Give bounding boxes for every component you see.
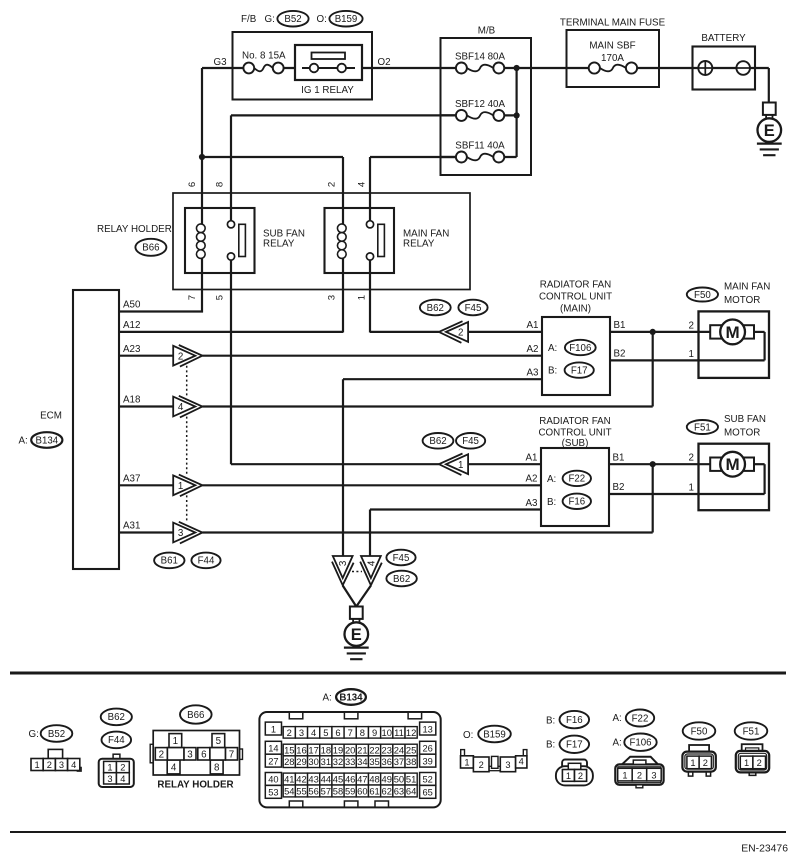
svg-text:O:: O: — [463, 730, 473, 741]
wire main A3 down to ground triangle 3 — [342, 379, 344, 556]
svg-text:3: 3 — [651, 770, 656, 780]
svg-text:14: 14 — [268, 744, 278, 754]
svg-text:B62: B62 — [393, 574, 410, 585]
battery negative terminal — [736, 61, 750, 75]
svg-text:F44: F44 — [108, 735, 125, 746]
svg-text:36: 36 — [382, 756, 392, 767]
svg-text:63: 63 — [394, 786, 404, 797]
svg-text:3: 3 — [299, 727, 304, 738]
wire ECM A31 to triangle — [119, 531, 173, 533]
svg-text:1: 1 — [458, 460, 463, 471]
svg-text:A37: A37 — [123, 473, 140, 484]
svg-text:1: 1 — [689, 483, 694, 494]
svg-text:F50: F50 — [691, 726, 708, 737]
wire triangle to sub control unit A2 — [202, 484, 541, 486]
connector view F50 — [682, 745, 715, 776]
connector pass-through triangle 4 (ground) — [360, 556, 382, 585]
connector oval F106 — [565, 340, 596, 355]
connector oval B52 (legend) — [41, 725, 73, 742]
svg-text:8: 8 — [360, 727, 365, 738]
svg-text:24: 24 — [394, 745, 404, 756]
junction SBF14 output — [514, 65, 520, 71]
wire motor sub stub — [754, 463, 765, 465]
connector oval B134 (schematic) — [31, 432, 62, 448]
svg-text:1: 1 — [35, 760, 40, 770]
svg-text:19: 19 — [333, 745, 343, 756]
svg-text:54: 54 — [284, 786, 294, 797]
svg-text:B1: B1 — [614, 320, 626, 331]
connector oval F22 (legend) — [626, 710, 654, 727]
connector oval B159 (top) — [329, 11, 362, 27]
svg-text:62: 62 — [382, 786, 392, 797]
svg-text:44: 44 — [321, 774, 331, 785]
connector oval F45 (sub chain) — [456, 433, 485, 449]
svg-text:21: 21 — [357, 745, 367, 756]
junction node coil feed — [199, 154, 205, 160]
svg-text:RADIATOR FAN: RADIATOR FAN — [539, 416, 611, 427]
wire SBF11 to bus — [499, 156, 517, 158]
fuse SBF14 80A — [456, 63, 504, 74]
svg-text:1: 1 — [357, 295, 368, 300]
svg-text:11: 11 — [394, 727, 404, 738]
svg-text:4: 4 — [311, 727, 316, 738]
svg-text:2: 2 — [578, 771, 583, 781]
svg-text:59: 59 — [345, 786, 355, 797]
wire into SBF12 — [441, 114, 461, 116]
svg-text:No. 8 15A: No. 8 15A — [242, 51, 286, 62]
svg-text:41: 41 — [284, 774, 294, 785]
svg-text:16: 16 — [296, 745, 306, 756]
svg-text:M/B: M/B — [478, 26, 496, 37]
svg-text:58: 58 — [333, 786, 343, 797]
svg-text:2: 2 — [689, 320, 694, 331]
connector oval F44 (legend) — [102, 732, 132, 749]
fuse box F/B outline — [233, 32, 373, 100]
radiator fan control unit MAIN — [542, 317, 610, 395]
svg-text:20: 20 — [345, 745, 355, 756]
svg-text:170A: 170A — [601, 53, 624, 64]
wire sub A3 left — [370, 508, 541, 510]
connector view F44/B62 — [99, 754, 134, 787]
svg-text:TERMINAL MAIN FUSE: TERMINAL MAIN FUSE — [560, 17, 666, 28]
svg-text:SBF12 40A: SBF12 40A — [455, 99, 506, 110]
svg-text:F17: F17 — [566, 740, 583, 751]
svg-text:B61: B61 — [161, 556, 178, 567]
svg-text:F45: F45 — [465, 303, 482, 314]
wire motor sub internal right — [763, 464, 765, 494]
connector oval F50 (legend) — [683, 722, 716, 739]
svg-text:E: E — [764, 122, 775, 140]
svg-text:61: 61 — [369, 786, 379, 797]
dotted link between ground triangles — [352, 571, 362, 573]
svg-text:46: 46 — [345, 774, 355, 785]
svg-text:4: 4 — [120, 774, 125, 784]
svg-text:CONTROL UNIT: CONTROL UNIT — [539, 291, 612, 302]
svg-text:G:: G: — [265, 14, 275, 25]
svg-text:A23: A23 — [123, 344, 141, 355]
svg-text:1: 1 — [622, 770, 627, 780]
battery positive terminal — [698, 61, 712, 75]
svg-text:47: 47 — [357, 774, 367, 785]
svg-text:9: 9 — [372, 727, 377, 738]
svg-text:F16: F16 — [568, 497, 585, 508]
svg-text:F106: F106 — [569, 343, 591, 354]
svg-text:B2: B2 — [613, 482, 625, 493]
svg-text:IG 1 RELAY: IG 1 RELAY — [301, 85, 354, 96]
connector oval B66 (schematic) — [135, 239, 166, 256]
connector oval B159 (legend) — [478, 726, 511, 743]
connector view F22/F106 — [615, 757, 663, 788]
svg-text:4: 4 — [171, 763, 177, 774]
connector oval F51 (schematic) — [687, 420, 718, 434]
svg-text:F51: F51 — [694, 422, 711, 433]
junction main B1 / A18 — [650, 329, 656, 335]
svg-text:33: 33 — [345, 756, 355, 767]
wire MAIN relay coil pin2/pin3 vertical — [342, 157, 344, 333]
wire triangle to main control unit A1 — [468, 331, 542, 333]
wire sub B2 to motor pin1 — [609, 493, 765, 495]
svg-text:56: 56 — [308, 786, 318, 797]
svg-text:B159: B159 — [335, 14, 358, 25]
svg-text:A2: A2 — [527, 344, 539, 355]
svg-text:40: 40 — [268, 775, 278, 785]
wire sub A3 down to ground triangle 4 — [369, 510, 371, 557]
svg-text:MAIN FAN: MAIN FAN — [724, 281, 770, 292]
connector view F16/F17 — [556, 760, 593, 786]
svg-text:13: 13 — [423, 724, 433, 734]
svg-text:F17: F17 — [571, 365, 588, 376]
wire SUB relay contact pin5 to SUB control unit A1 — [230, 260, 232, 464]
svg-text:B:: B: — [546, 716, 555, 727]
svg-text:2: 2 — [159, 749, 164, 760]
svg-text:5: 5 — [216, 736, 222, 747]
wire M/B internal bus vertical — [515, 68, 517, 157]
svg-text:1: 1 — [271, 724, 276, 734]
svg-text:MAIN SBF: MAIN SBF — [589, 40, 635, 51]
svg-text:10: 10 — [382, 727, 392, 738]
svg-text:F51: F51 — [743, 726, 760, 737]
svg-text:15: 15 — [284, 745, 294, 756]
svg-text:RADIATOR FAN: RADIATOR FAN — [540, 279, 612, 290]
svg-text:38: 38 — [406, 756, 416, 767]
svg-text:5: 5 — [323, 727, 328, 738]
svg-text:3: 3 — [327, 295, 338, 300]
wire triangle to main control unit A2 — [202, 355, 542, 357]
svg-text:2: 2 — [479, 760, 484, 770]
svg-text:5: 5 — [215, 295, 226, 300]
wire SBF12 to SUB relay contact pin8 — [230, 115, 232, 221]
svg-text:3: 3 — [59, 760, 64, 770]
wire main B1 to motor pin2 — [610, 331, 710, 333]
svg-text:F44: F44 — [198, 556, 215, 567]
svg-text:51: 51 — [406, 774, 416, 785]
svg-text:34: 34 — [357, 756, 367, 767]
svg-text:28: 28 — [284, 756, 294, 767]
svg-text:1: 1 — [173, 736, 178, 747]
svg-text:65: 65 — [423, 788, 433, 798]
wire triangle 3 to ground joint — [343, 586, 357, 607]
svg-text:A31: A31 — [123, 521, 140, 532]
connector pass-through triangle 1 (sub A1) — [439, 454, 468, 476]
svg-text:O:: O: — [317, 14, 327, 25]
svg-text:3: 3 — [505, 760, 510, 770]
svg-text:A:: A: — [323, 693, 332, 704]
wire sub B1 to motor pin2 — [609, 463, 710, 465]
fuse SBF11 40A — [456, 152, 504, 163]
svg-text:A:: A: — [613, 713, 622, 724]
svg-text:22: 22 — [369, 745, 379, 756]
dotted harness link between triangles — [186, 366, 188, 523]
connector oval B62 (sub chain) — [423, 433, 454, 449]
svg-text:30: 30 — [308, 756, 318, 767]
svg-text:4: 4 — [519, 757, 524, 767]
svg-text:52: 52 — [423, 775, 433, 785]
svg-text:F22: F22 — [568, 474, 585, 485]
ECM outline — [73, 290, 119, 569]
connector view F51 — [736, 744, 769, 775]
svg-text:F16: F16 — [566, 715, 583, 726]
relay K1 SUB FAN RELAY — [185, 208, 255, 273]
svg-text:SBF11 40A: SBF11 40A — [455, 141, 505, 152]
svg-text:45: 45 — [333, 774, 343, 785]
connector oval F17 (legend) — [560, 736, 590, 753]
svg-text:50: 50 — [394, 774, 404, 785]
connector oval B134 (legend) — [336, 689, 366, 705]
svg-text:12: 12 — [406, 727, 416, 738]
svg-text:BATTERY: BATTERY — [701, 33, 746, 44]
wire main A3 left — [343, 378, 542, 380]
svg-text:F22: F22 — [632, 713, 649, 724]
svg-text:7: 7 — [229, 749, 234, 760]
svg-text:2: 2 — [178, 351, 183, 362]
main fuse box M/B outline — [441, 38, 532, 175]
svg-text:RELAY HOLDER: RELAY HOLDER — [97, 224, 172, 235]
wire ECM A23 to triangle — [119, 355, 173, 357]
svg-text:(MAIN): (MAIN) — [560, 303, 591, 314]
wire SBF12 feed horizontal — [231, 114, 455, 116]
svg-text:26: 26 — [423, 744, 433, 754]
connector view B134 ECM — [259, 712, 440, 807]
wire MAIN SBF to battery — [631, 67, 769, 69]
svg-text:1: 1 — [744, 758, 749, 768]
svg-text:A3: A3 — [526, 498, 539, 509]
wire A18 triangle to junction — [202, 405, 652, 407]
svg-text:SUB FAN: SUB FAN — [724, 414, 766, 425]
connector pass-through triangle 2 (A23) — [173, 345, 202, 367]
radiator fan control unit SUB — [541, 448, 609, 526]
wire fuse No.8 through IG1 relay contacts to SBF14 — [277, 67, 461, 69]
separator line lower — [10, 831, 786, 833]
wire motor main internal right — [763, 332, 765, 361]
svg-text:1: 1 — [178, 481, 183, 492]
svg-text:B159: B159 — [483, 729, 506, 740]
svg-text:B:: B: — [547, 497, 556, 508]
svg-text:(SUB): (SUB) — [562, 438, 589, 449]
wire motor main stub — [754, 331, 765, 333]
svg-text:2: 2 — [757, 758, 762, 768]
svg-text:A18: A18 — [123, 395, 141, 406]
connector oval F45 (ground) — [386, 550, 415, 566]
IG 1 relay U1 — [295, 45, 362, 80]
svg-text:1: 1 — [690, 758, 695, 768]
connector pass-through triangle 1 (A37) — [173, 475, 202, 497]
svg-text:A:: A: — [548, 343, 557, 354]
svg-text:RELAY: RELAY — [403, 238, 435, 249]
wire ECM A12 to relay pin3 — [119, 331, 343, 333]
svg-text:3: 3 — [107, 774, 112, 784]
svg-text:1: 1 — [464, 758, 469, 768]
svg-text:F45: F45 — [393, 553, 410, 564]
svg-text:A2: A2 — [526, 474, 538, 485]
junction SBF12 output — [514, 112, 520, 118]
svg-text:53: 53 — [268, 788, 278, 798]
svg-text:F50: F50 — [694, 290, 711, 301]
svg-text:B134: B134 — [339, 692, 363, 703]
wire A18 up to main B1 — [652, 332, 654, 407]
svg-text:25: 25 — [406, 745, 416, 756]
svg-text:G:: G: — [29, 729, 39, 740]
svg-text:35: 35 — [369, 756, 379, 767]
svg-text:B66: B66 — [142, 243, 159, 254]
svg-text:ECM: ECM — [40, 411, 62, 422]
svg-text:2: 2 — [287, 727, 292, 738]
wire G3 to fuse No.8 — [202, 67, 250, 69]
svg-text:4: 4 — [178, 402, 184, 413]
main fan motor M1 — [699, 311, 770, 378]
svg-text:1: 1 — [566, 771, 571, 781]
wire MAIN relay contact pin1 down — [369, 260, 371, 333]
svg-text:B62: B62 — [427, 303, 444, 314]
fuse MAIN SBF 170A — [589, 62, 637, 73]
junction sub B1 / A31 — [650, 461, 656, 467]
connector oval B66 (legend) — [180, 705, 212, 723]
separator line upper — [10, 672, 786, 675]
wire battery negative to ground — [768, 68, 770, 103]
svg-text:M: M — [726, 323, 740, 342]
wire A31 up to sub B1 — [652, 464, 654, 532]
svg-text:31: 31 — [321, 756, 331, 767]
svg-text:B66: B66 — [187, 710, 204, 721]
wire SBF11 to MAIN relay contact pin4 — [369, 157, 371, 221]
svg-text:F/B: F/B — [241, 14, 257, 25]
svg-text:B62: B62 — [429, 436, 446, 447]
svg-text:8: 8 — [215, 182, 226, 187]
connector oval F22 — [563, 471, 591, 486]
svg-text:E: E — [351, 626, 362, 644]
connector pass-through triangle 3 (A31) — [173, 522, 202, 544]
svg-text:B52: B52 — [48, 729, 65, 740]
connector oval F50 (schematic) — [687, 288, 718, 302]
wire ECM A18 to triangle — [119, 405, 173, 407]
svg-text:MOTOR: MOTOR — [724, 295, 760, 306]
connector pass-through triangle 4 (A18) — [173, 396, 202, 418]
connector oval F16 (legend) — [560, 711, 590, 728]
svg-text:F45: F45 — [462, 436, 479, 447]
svg-text:7: 7 — [187, 295, 198, 300]
svg-text:49: 49 — [382, 774, 392, 785]
svg-text:6: 6 — [201, 749, 207, 760]
svg-text:4: 4 — [71, 760, 76, 770]
wire G3 vertical to SUB relay coil and A50 — [201, 68, 203, 313]
relay holder outline — [173, 193, 470, 290]
wire coil feed to MAIN relay coil — [202, 156, 343, 158]
svg-text:A:: A: — [613, 738, 622, 749]
svg-text:3: 3 — [187, 749, 193, 760]
ground E (battery) — [757, 103, 782, 156]
wire relay pin1 to triangle — [370, 331, 439, 333]
connector oval B61 — [154, 553, 184, 569]
svg-text:17: 17 — [308, 745, 318, 756]
connector oval F16 — [563, 494, 591, 509]
connector oval B62 (legend) — [101, 709, 132, 726]
svg-text:6: 6 — [187, 182, 198, 187]
svg-text:8: 8 — [214, 763, 220, 774]
svg-text:A50: A50 — [123, 300, 141, 311]
connector view B159 — [461, 750, 527, 772]
svg-text:O2: O2 — [378, 57, 391, 68]
svg-text:RELAY: RELAY — [263, 238, 295, 249]
connector pass-through triangle 3 (ground) — [332, 556, 354, 585]
connector view B52 — [31, 749, 81, 771]
svg-text:48: 48 — [369, 774, 379, 785]
svg-text:57: 57 — [321, 786, 331, 797]
svg-text:CONTROL UNIT: CONTROL UNIT — [538, 427, 611, 438]
svg-text:A3: A3 — [527, 367, 540, 378]
svg-text:B52: B52 — [284, 14, 301, 25]
terminal main fuse box outline — [567, 30, 660, 87]
svg-text:64: 64 — [406, 786, 416, 797]
svg-text:55: 55 — [296, 786, 306, 797]
svg-text:2: 2 — [120, 763, 125, 773]
connector view B66 relay holder — [150, 731, 242, 776]
svg-text:3: 3 — [338, 560, 349, 566]
svg-text:B1: B1 — [613, 452, 625, 463]
svg-text:39: 39 — [423, 756, 433, 766]
svg-text:2: 2 — [637, 770, 642, 780]
svg-text:42: 42 — [296, 774, 306, 785]
svg-text:2: 2 — [47, 760, 52, 770]
connector pass-through triangle 2 (main A1) — [439, 321, 468, 343]
svg-text:32: 32 — [333, 756, 343, 767]
svg-text:18: 18 — [321, 745, 331, 756]
svg-text:4: 4 — [366, 560, 377, 566]
wire ECM A37 to triangle — [119, 484, 173, 486]
connector oval B62 (ground) — [386, 571, 416, 587]
svg-text:SBF14 80A: SBF14 80A — [455, 52, 506, 63]
svg-text:B134: B134 — [35, 435, 58, 446]
wire ECM A50 to relay pin7 — [119, 310, 203, 312]
wire main B2 to motor pin1 — [610, 359, 765, 361]
svg-text:A:: A: — [547, 474, 556, 485]
svg-text:2: 2 — [703, 758, 708, 768]
svg-text:B62: B62 — [108, 712, 125, 723]
svg-text:A12: A12 — [123, 320, 140, 331]
svg-text:43: 43 — [308, 774, 318, 785]
svg-text:MOTOR: MOTOR — [724, 428, 760, 439]
svg-text:G3: G3 — [214, 57, 228, 68]
connector oval F44 (schematic) — [191, 553, 220, 569]
sub fan motor M2 — [699, 444, 770, 511]
wire SBF14 to MAIN SBF fuse — [499, 67, 595, 69]
wire triangle 4 to ground joint — [356, 586, 371, 607]
svg-text:37: 37 — [394, 756, 404, 767]
svg-text:60: 60 — [357, 786, 367, 797]
wire SBF12 to bus — [499, 114, 517, 116]
fuse SBF12 40A — [456, 110, 504, 121]
svg-text:B:: B: — [548, 366, 557, 377]
svg-text:2: 2 — [327, 182, 338, 187]
svg-text:3: 3 — [178, 528, 184, 539]
